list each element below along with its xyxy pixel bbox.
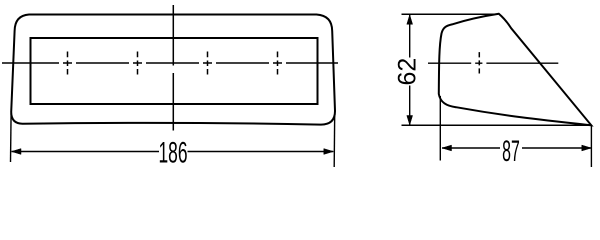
svg-text:87: 87 [502,135,520,169]
center mark 2 [137,52,139,75]
vertical dimension line 62 [409,15,411,125]
arrow left 87 [442,145,452,151]
side view top extension line [402,13,499,15]
side view bottom baseline [402,124,592,126]
center mark 1 [67,52,69,75]
front view outer body [11,15,335,125]
arrow right 87 [582,145,592,151]
extension line left (87) [439,96,441,161]
dimension line 186 [12,151,334,153]
extension line right (186) [333,113,336,167]
extension line right (87) [590,125,592,167]
extension line left (186) [10,113,13,162]
front view inner rect [31,38,318,104]
vertical centerline [172,5,174,131]
dimension line 87 [442,147,591,149]
side profile body [439,14,592,126]
svg-text:186: 186 [158,137,187,170]
side center mark [478,52,480,73]
center mark 4 [277,52,279,75]
arrow down 62 [407,116,413,126]
arrow left 186 [12,149,22,155]
horizontal centerline [2,62,338,64]
center mark 3 [207,52,209,75]
arrow right 186 [324,149,334,155]
side horizontal centerline [428,62,558,64]
arrow up 62 [407,15,413,24]
svg-text:62: 62 [394,58,422,86]
